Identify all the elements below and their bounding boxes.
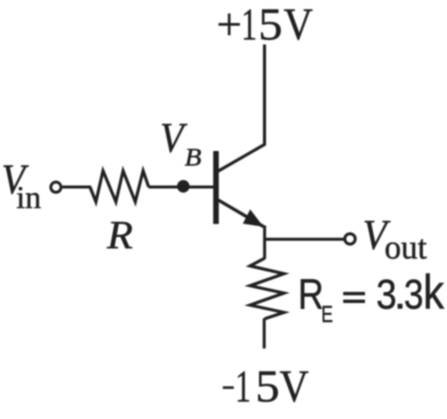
label RE value: 3.3k xyxy=(376,265,444,319)
svg-text:V: V xyxy=(160,114,188,161)
svg-text:B: B xyxy=(185,143,202,171)
svg-text:E: E xyxy=(321,302,333,328)
wire emitter down to output junction and resistor RE xyxy=(263,226,266,260)
svg-text:1: 1 xyxy=(241,0,257,50)
wire RE to -15V xyxy=(263,318,266,348)
svg-text:1: 1 xyxy=(235,362,251,412)
emitter arrowhead xyxy=(243,209,264,226)
wire collector vertical from +15V xyxy=(218,45,265,172)
wire emitter diagonal xyxy=(218,200,263,227)
svg-text:out: out xyxy=(385,229,428,266)
wire output junction to Vout terminal xyxy=(265,238,344,241)
terminal circle Vout xyxy=(345,234,355,244)
svg-text:3: 3 xyxy=(404,272,424,319)
svg-text:k: k xyxy=(423,265,444,319)
svg-text:V: V xyxy=(280,363,309,412)
svg-text:V: V xyxy=(284,0,313,49)
wire resistor to base xyxy=(149,186,214,189)
resistor R xyxy=(90,171,149,202)
wire base from Vin terminal to resistor R xyxy=(62,186,91,189)
svg-text:R: R xyxy=(106,212,133,257)
svg-text:5: 5 xyxy=(258,0,282,50)
terminal circle Vin xyxy=(51,182,61,192)
label -15V xyxy=(223,362,309,412)
svg-text:in: in xyxy=(16,179,41,215)
node dot VB junction xyxy=(177,180,190,193)
transistor Q1 base bar xyxy=(213,151,219,224)
svg-text:+: + xyxy=(217,0,242,49)
label +15V xyxy=(217,0,313,50)
svg-text:R: R xyxy=(298,272,324,319)
resistor RE = 3.3k xyxy=(250,258,284,319)
label RE value: equals sign xyxy=(343,292,365,295)
svg-text:5: 5 xyxy=(255,362,279,412)
